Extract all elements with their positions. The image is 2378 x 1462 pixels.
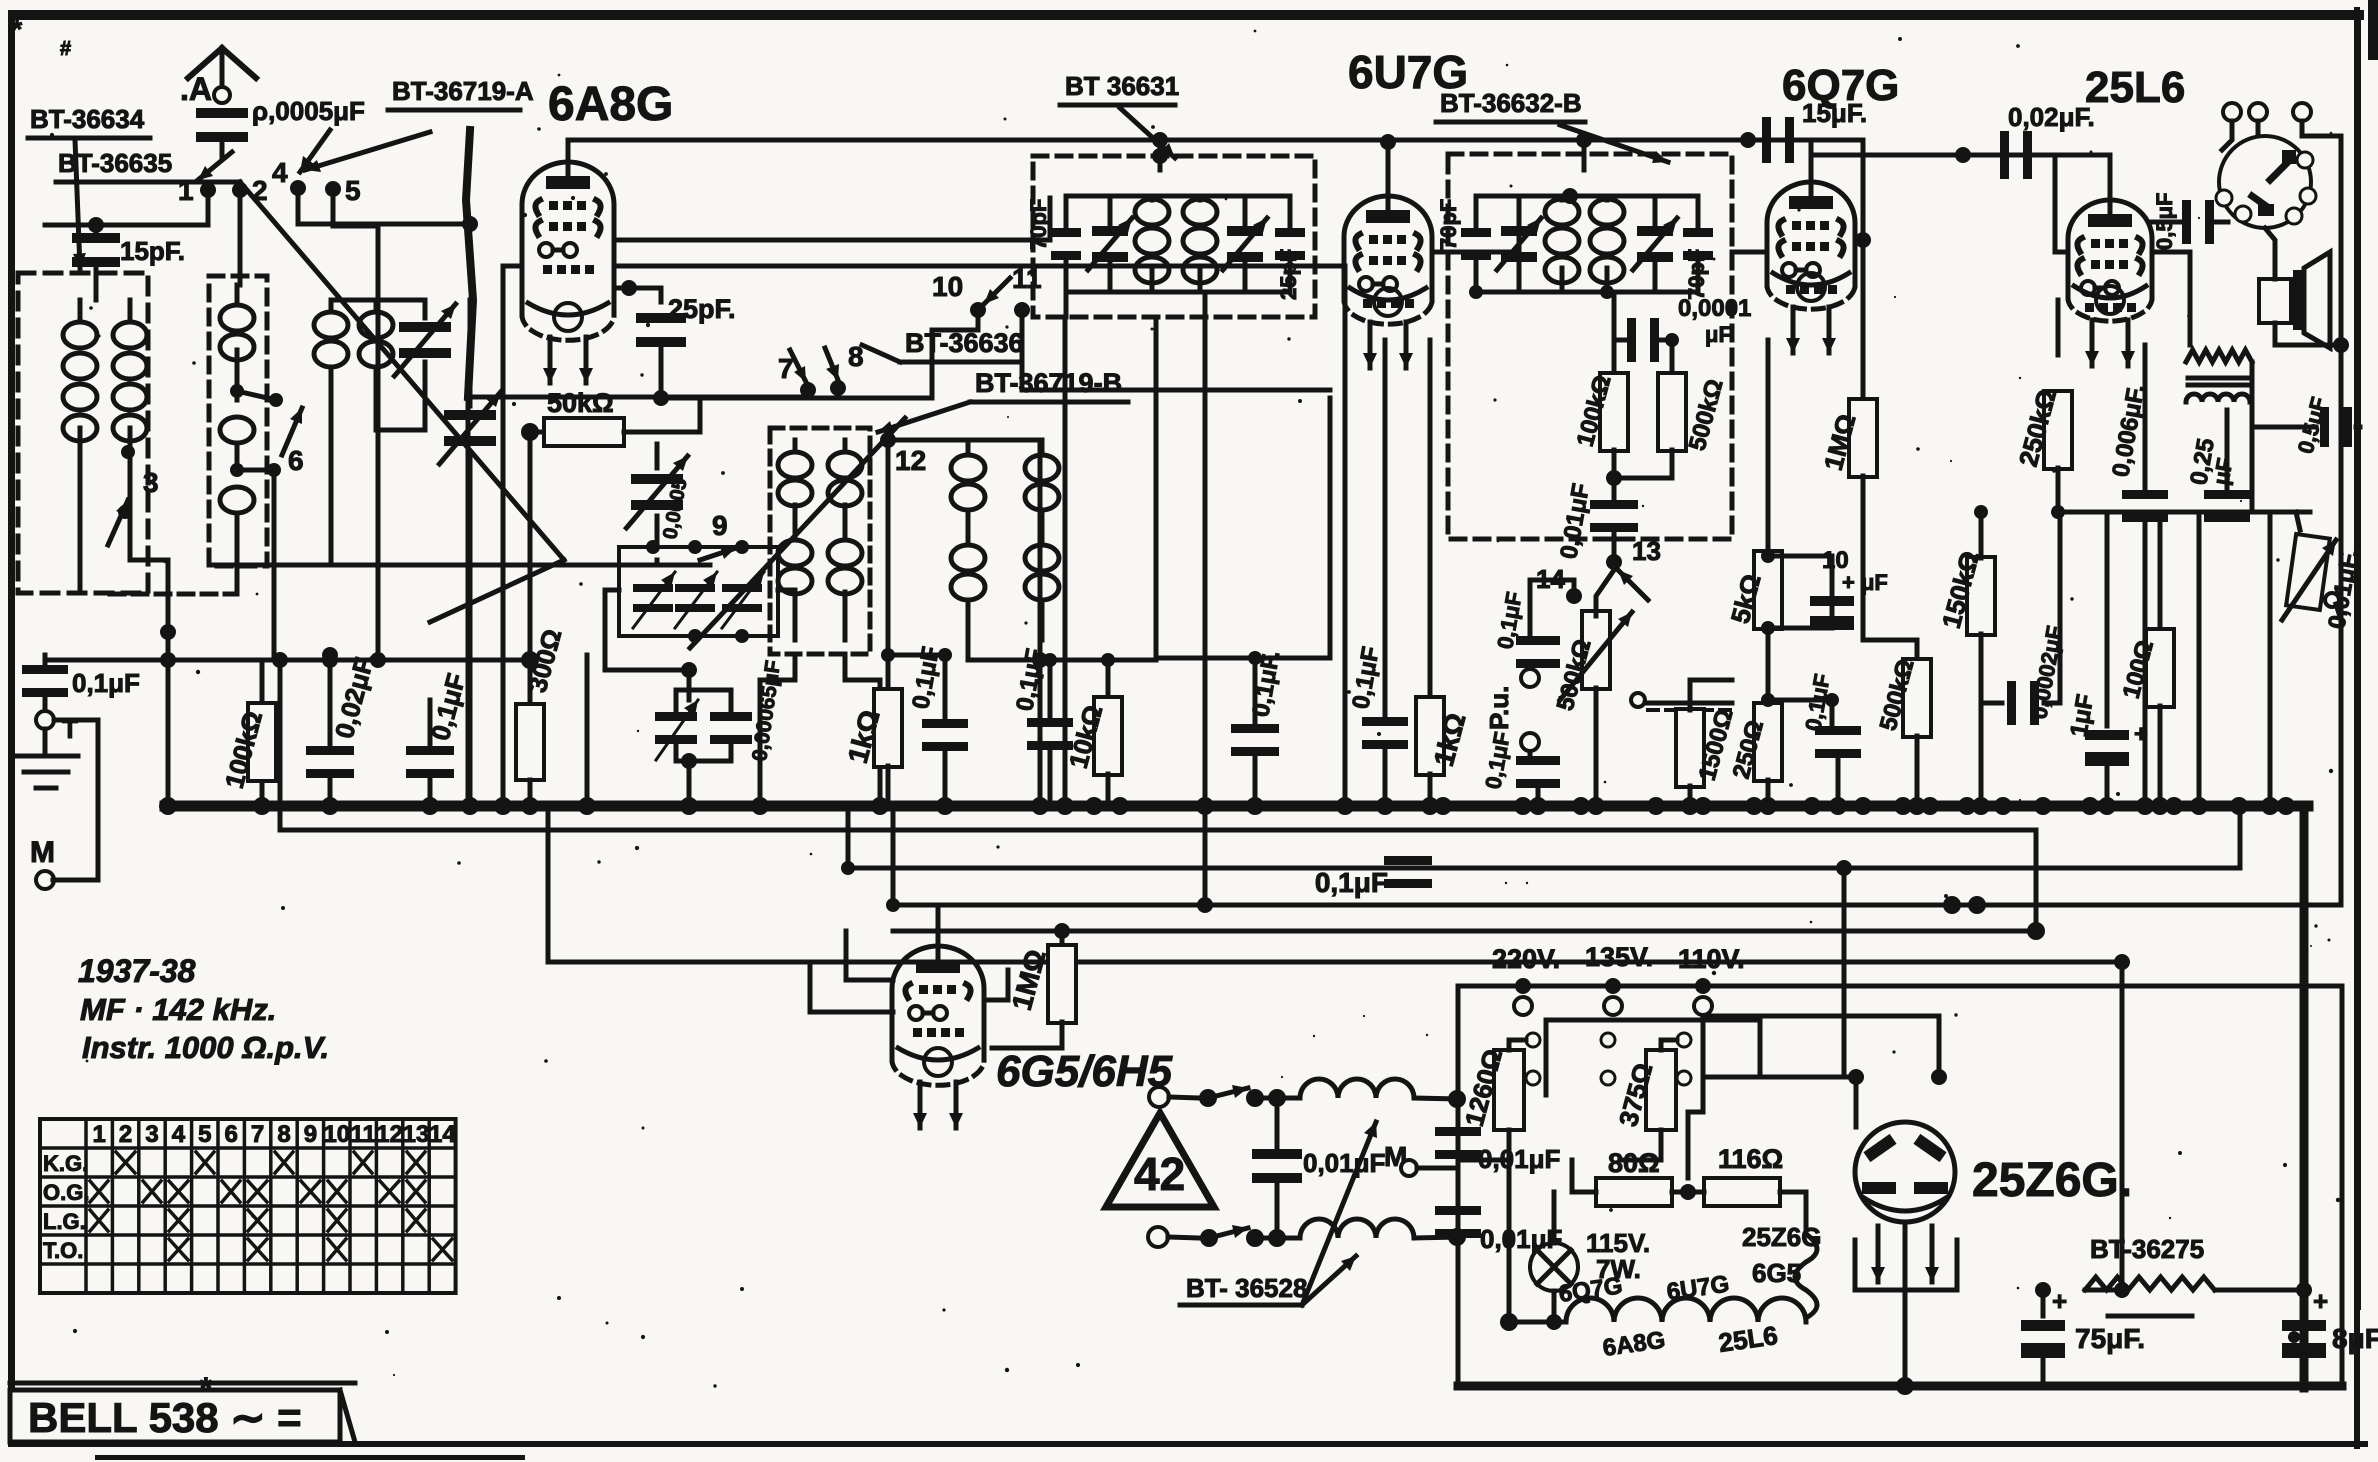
capacitor 0,1uF ground <box>22 665 68 674</box>
resistor 5k <box>1766 340 1771 556</box>
divider circles <box>1526 1033 1540 1047</box>
svg-text:8: 8 <box>277 1121 290 1148</box>
resistor BT-36275 zigzag <box>2085 1277 2215 1290</box>
resistor 500k det <box>1658 373 1686 451</box>
svg-text:BT-36635: BT-36635 <box>58 148 172 178</box>
rail y905 <box>893 140 2341 905</box>
svg-text:0,1μF: 0,1μF <box>1315 867 1388 898</box>
resistor 1M <box>1861 340 1866 400</box>
wire 1M bottom to 500k <box>1863 640 1917 660</box>
svg-text:0,01μF: 0,01μF <box>1480 1224 1562 1254</box>
svg-text:K.G.: K.G. <box>43 1151 88 1176</box>
svg-text:15pF.: 15pF. <box>120 236 185 266</box>
variable capacitor main tuning 1 <box>444 410 496 420</box>
capacitor 0,5uF socket <box>2182 200 2191 244</box>
wire heavy line continue down <box>466 397 471 806</box>
wire 6Q7G grid left <box>1732 250 1767 255</box>
svg-text:11: 11 <box>1012 263 1042 294</box>
capacitor 0,1uF det <box>1048 660 1053 718</box>
capacitor 0,01uF across mains <box>1275 1098 1280 1150</box>
svg-text:BELL 538 ∼ =: BELL 538 ∼ = <box>28 1394 302 1441</box>
wire 25Z6G cathode down <box>1903 1222 1908 1386</box>
contact 14 <box>1566 588 1582 604</box>
svg-text:7: 7 <box>251 1121 264 1148</box>
oscillator dashed box BT-36636 <box>770 428 870 654</box>
speaker <box>2259 279 2291 323</box>
svg-text:220V.: 220V. <box>1492 944 1560 974</box>
wire 888 down <box>886 440 891 655</box>
wire plate y240 <box>614 198 1050 240</box>
arrow to 10 <box>984 278 1010 304</box>
wire transformer wiring <box>2250 362 2255 512</box>
wire left column junction <box>45 658 530 663</box>
wire contact4 down <box>298 188 466 224</box>
padder varcap 2 <box>675 584 715 592</box>
tuning coil 3 <box>329 300 334 312</box>
svg-text:70pF: 70pF <box>1436 199 1461 250</box>
resistor 50k <box>530 430 545 435</box>
wire 0,1uF ground leg <box>43 655 48 668</box>
wire 6U7G plate <box>1432 196 1519 252</box>
dashed AVC line <box>1645 701 1732 706</box>
rail y962 <box>548 806 2122 1290</box>
wire contact1 down <box>96 190 208 225</box>
electrolytic 75uF <box>2041 1290 2046 1316</box>
wire 25L6 topcap riser <box>2108 155 2113 200</box>
antenna coil secondary <box>128 300 133 320</box>
contact 11 <box>1014 302 1030 318</box>
output transformer core <box>2188 376 2250 381</box>
wire 0,006 riser down <box>2143 521 2148 806</box>
wire grid row <box>614 286 629 291</box>
wire y398 right portion <box>800 396 932 401</box>
svg-text:1: 1 <box>93 1121 106 1148</box>
capacitor 0,1uF mid <box>1253 658 1258 722</box>
capacitor 0,1uF PU bottom <box>1528 752 1533 758</box>
coil 2 winding <box>235 285 240 305</box>
wire pot bottom <box>1594 688 1599 806</box>
variable capacitor antenna trim <box>399 322 451 332</box>
wire tap down <box>272 470 277 660</box>
wire 0,25 top <box>2225 410 2230 440</box>
junction dots on bus <box>159 797 177 815</box>
osc tank coil right A <box>966 440 971 452</box>
wire IF1 left col to bus <box>1063 317 1068 806</box>
tube 6A8G arrows <box>548 337 553 383</box>
IF2 wires bottom <box>1476 258 1698 292</box>
wire top-left horizontal <box>45 223 96 228</box>
tube 25Z6G <box>1855 1122 1955 1222</box>
resistor 80ohm <box>1596 1178 1672 1206</box>
wire 6G5 feeds <box>810 962 893 1012</box>
svg-text:1MΩ: 1MΩ <box>1006 946 1052 1013</box>
wire osc box to bus risers <box>760 654 795 806</box>
resistor 250ohm <box>1754 703 1782 781</box>
socket wiring <box>2222 121 2232 150</box>
svg-text:0,0001: 0,0001 <box>1678 295 1751 322</box>
rail y830 <box>280 806 2036 931</box>
svg-text:10: 10 <box>932 271 963 302</box>
tube 6U7G arrows <box>1368 322 1373 368</box>
bumps vertical <box>1795 1198 1817 1318</box>
osc coil left top <box>793 440 798 452</box>
wire line y155 from top cap <box>1811 153 2110 158</box>
svg-text:μF: μF <box>1705 322 1732 347</box>
wire 6A8G left to switch5 wire <box>503 264 522 269</box>
svg-text:5: 5 <box>198 1121 211 1148</box>
heavy bus drop right <box>2300 806 2309 1388</box>
svg-text:L.G.: L.G. <box>43 1209 86 1234</box>
IF1 wires bottom <box>1066 258 1290 292</box>
IF2 coil left <box>1545 199 1579 225</box>
heavy wire BT-36719-A <box>466 130 473 397</box>
terminal T <box>36 711 54 729</box>
heater chain wire <box>1509 1130 1566 1322</box>
volume pot 500k <box>1582 611 1610 689</box>
svg-text:25L6: 25L6 <box>2085 63 2185 112</box>
mains switch top <box>1169 1097 1200 1098</box>
capacitor 0,01uF box edge bottom <box>1435 1206 1481 1215</box>
capacitor 0,5uF top right <box>2320 407 2329 447</box>
svg-text:2: 2 <box>252 175 268 206</box>
wire padder bottom <box>605 590 689 670</box>
wire 1844 drop <box>1842 868 1847 1077</box>
variable capacitor osc tuning <box>631 474 683 484</box>
tube 25Z6G arrows <box>1876 1226 1881 1282</box>
wire screen y266 <box>614 264 1345 269</box>
resistor 375ohm <box>1646 1050 1676 1130</box>
wire IF1 mid col down <box>1154 317 1159 660</box>
capacitor 0,0002uF <box>2007 681 2016 725</box>
wire 6Q7G top cap <box>1809 140 1814 182</box>
capacitor 0,1uF 6A8G cathode <box>943 655 948 718</box>
arrow BT-36632-B <box>1560 125 1668 162</box>
svg-text:BT-36634: BT-36634 <box>30 104 145 134</box>
svg-text:8μF.: 8μF. <box>2332 1323 2378 1354</box>
svg-text:0,01μF: 0,01μF <box>1555 481 1595 561</box>
arrow to contact 4 <box>305 132 430 170</box>
wire 1500 top <box>1690 680 1732 710</box>
resistor 100k <box>260 660 265 700</box>
svg-text:BT-36632-B: BT-36632-B <box>1440 88 1582 118</box>
svg-text:25Z6G.: 25Z6G. <box>1972 1154 2132 1207</box>
contact 12 <box>880 432 896 448</box>
wire tank bottom <box>968 640 1040 660</box>
svg-text:BT 36631: BT 36631 <box>1065 71 1179 101</box>
long gang diagonal <box>240 182 564 560</box>
wire 25Z6G top right <box>1937 1016 1942 1077</box>
capacitor 0,006uF <box>2143 345 2148 490</box>
contact 10 <box>970 302 986 318</box>
switch arm 13-14 <box>1618 570 1648 600</box>
contact 3 <box>121 445 135 459</box>
pilot lamp <box>1530 1243 1578 1291</box>
wire coil top join <box>331 298 425 303</box>
wire 25L6 grid left <box>2055 155 2068 252</box>
wire det resistors join <box>1614 450 1672 502</box>
wire contact2 down <box>238 190 243 285</box>
resistor 500k right <box>1903 659 1931 737</box>
power box outline <box>1458 986 2342 1386</box>
IF1 cap 25pF <box>1275 228 1305 237</box>
IF transformer dashed box BT 36631 <box>1033 156 1315 317</box>
wire grid to 25pF <box>629 288 661 302</box>
IF2 cap 70pF right <box>1683 228 1713 237</box>
osc coil right bottom <box>828 540 862 566</box>
wire y397 long <box>468 395 800 400</box>
svg-text:500kΩ: 500kΩ <box>1684 376 1729 453</box>
svg-text:0,5μF: 0,5μF <box>2152 193 2177 250</box>
phono socket <box>2219 136 2311 228</box>
svg-text:6: 6 <box>225 1121 238 1148</box>
svg-text:80Ω: 80Ω <box>1608 1148 1660 1178</box>
variable capacitor 0,00065uF pair <box>687 670 692 700</box>
svg-text:0,00065μF: 0,00065μF <box>748 659 785 763</box>
wire padder to bus <box>778 588 795 593</box>
wire 280 riser <box>278 655 283 806</box>
wire tank top <box>952 438 1042 443</box>
capacitor 0,02uF <box>2000 131 2009 179</box>
wire osc cap down <box>655 560 660 565</box>
contact 13 <box>1606 554 1622 570</box>
tube 25L6 arrows <box>2090 320 2095 366</box>
padder varcap 1 <box>633 584 673 592</box>
rail y868 <box>848 806 2240 868</box>
wire to coil bottom <box>1255 1236 1298 1241</box>
triangle 42 <box>1106 1113 1214 1207</box>
wire 250k top <box>2056 300 2061 355</box>
tube 6G5 arrows <box>918 1082 923 1128</box>
wire det col down <box>1612 340 1617 374</box>
wire M to T <box>53 720 98 880</box>
tube 6Q7G <box>1767 182 1855 285</box>
switch arm 1 <box>198 152 232 180</box>
svg-text:MF · 142 kHz.: MF · 142 kHz. <box>80 992 276 1027</box>
tube 25L6 <box>2068 200 2152 298</box>
terminals 220 135 110 <box>1515 978 1531 994</box>
svg-text:1: 1 <box>178 175 194 206</box>
IF2 varcap right <box>1637 226 1673 236</box>
svg-text:4: 4 <box>172 1121 186 1148</box>
wire 150k top <box>1979 512 1984 558</box>
mains choke bottom <box>1300 1219 1414 1238</box>
contact 8 <box>830 380 846 396</box>
wire antenna to switch <box>220 140 225 158</box>
output transformer secondary <box>2186 394 2250 402</box>
wire 6Q7G plate right <box>1855 238 1863 243</box>
capacitor 0,0001uF <box>1627 318 1636 362</box>
wire choke top right <box>1414 1098 1457 1099</box>
resistor 1k 6A8G cathode <box>886 655 891 690</box>
wire y512 <box>2058 510 2310 515</box>
switch table <box>40 1119 456 1293</box>
arrows BT-36528 <box>1302 1122 1376 1305</box>
svg-text:25Z6G: 25Z6G <box>1742 1222 1822 1252</box>
wire speaker connections <box>2265 228 2275 279</box>
wire plate feed drop <box>1861 140 1866 340</box>
wire 14 left <box>1530 580 1574 640</box>
main ground bus <box>165 801 2308 812</box>
wire coil to bus-left <box>130 560 168 806</box>
IF1 varcap left <box>1092 226 1128 236</box>
svg-text:25pF.: 25pF. <box>668 294 736 324</box>
rail y931 <box>893 929 2036 934</box>
svg-text:14: 14 <box>429 1121 456 1148</box>
svg-text:15μF.: 15μF. <box>1802 98 1867 128</box>
capacitor 0,1uF 6U7G cathode <box>1383 340 1388 715</box>
wire tank riser to bus <box>1038 440 1043 806</box>
svg-text:.A: .A <box>180 71 212 107</box>
electrolytic 1uF <box>2105 512 2110 726</box>
wire 1260 wiring <box>1458 1040 1526 1160</box>
resistor 100ohm <box>2158 522 2163 630</box>
IF1 coil right <box>1183 199 1217 225</box>
svg-text:6G5: 6G5 <box>1752 1258 1801 1288</box>
wire 6U7G top cap <box>1386 142 1391 196</box>
divider wiring rect <box>1546 1020 1760 1095</box>
dashed box coil 2 <box>209 276 267 566</box>
volume pot 0,01uF <box>2286 534 2330 610</box>
wire box top inner <box>1703 1014 1939 1019</box>
svg-text:ρ,0005μF: ρ,0005μF <box>252 96 365 126</box>
ground symbol <box>43 729 48 756</box>
switch arms 7 8 <box>790 350 806 382</box>
svg-text:BT- 36528: BT- 36528 <box>1186 1273 1307 1303</box>
gang diagonal tail <box>430 560 564 622</box>
svg-text:25L6: 25L6 <box>1717 1320 1780 1358</box>
svg-text:4: 4 <box>272 157 288 188</box>
wire right column risers <box>2197 512 2202 806</box>
wire label to arms <box>862 345 900 362</box>
wire contact12 right <box>888 438 952 443</box>
IF2 coil right <box>1590 199 1624 225</box>
svg-text:0,1μF: 0,1μF <box>1347 645 1384 711</box>
svg-text:5: 5 <box>345 175 361 206</box>
tube 6Q7G arrows <box>1791 307 1796 353</box>
wire lamp <box>1552 1192 1557 1322</box>
padder box <box>619 547 778 636</box>
IF1 wires top <box>1066 196 1290 230</box>
electrolytic 10uF <box>1830 570 1835 628</box>
table X marks <box>90 1152 452 1260</box>
svg-text:75μF.: 75μF. <box>2075 1323 2145 1354</box>
heater chain coils <box>1566 1298 1806 1322</box>
svg-text:T.O.: T.O. <box>43 1238 83 1263</box>
wire 10uF join <box>1768 556 1832 628</box>
resistor 116ohm <box>1704 1178 1780 1206</box>
svg-text:0,1μF: 0,1μF <box>425 670 472 743</box>
svg-text:3: 3 <box>143 467 159 498</box>
IF2 varcap left <box>1501 226 1537 236</box>
svg-text:9: 9 <box>712 510 728 541</box>
wire choke bottom right <box>1414 1237 1457 1238</box>
capacitor 0,25uF <box>2225 440 2230 490</box>
socket pins <box>2297 152 2313 168</box>
resistor 1500ohm <box>1688 710 1693 716</box>
wire cathode horizontal <box>888 653 945 658</box>
IF2 cap 70pF left <box>1461 228 1491 237</box>
wire top cap to line A <box>566 140 571 162</box>
mains terminal top <box>1149 1087 1169 1107</box>
junction dots on rails <box>1943 896 1961 914</box>
svg-text:10: 10 <box>323 1121 350 1148</box>
contact 7 <box>800 382 816 398</box>
switch arm 4 <box>300 130 330 172</box>
capacitor 15pF line <box>1762 117 1771 163</box>
terminal PU 1 <box>1521 669 1539 687</box>
svg-text:BT-36719-B.: BT-36719-B. <box>975 368 1130 398</box>
wire det col <box>1612 292 1617 340</box>
capacitor 0,1uF on rail <box>1384 856 1432 865</box>
wire pot wiring <box>2296 512 2300 530</box>
capacitor 0,1uF 6Q7G <box>1830 700 1835 726</box>
arrow BT 36631 <box>1120 108 1175 158</box>
svg-text:13: 13 <box>403 1121 430 1148</box>
svg-text:70pF: 70pF <box>1026 199 1051 250</box>
resistor 250k <box>2056 300 2061 355</box>
capacitor 0,1uF PU top <box>1516 636 1560 645</box>
IF transformer detector dashed box BT-36632-B <box>1448 154 1732 539</box>
capacitor 15pF <box>94 225 99 235</box>
wire 0,0002 wiring <box>1981 701 2002 706</box>
resistor 150k <box>1967 557 1995 635</box>
svg-text:2: 2 <box>119 1121 132 1148</box>
switch contacts 1 2 4 5 <box>200 182 216 198</box>
resistor 10k <box>1106 660 1111 700</box>
capacitor 25pF <box>636 313 686 323</box>
wire zigzag right <box>2215 1288 2304 1293</box>
mains switch bottom <box>1168 1237 1200 1238</box>
svg-text:50kΩ: 50kΩ <box>547 388 614 418</box>
svg-text:0,1μF: 0,1μF <box>72 668 140 698</box>
IF1 coil left <box>1135 199 1169 225</box>
mains choke top <box>1300 1079 1414 1098</box>
wire HT right <box>2085 1288 2122 1293</box>
wire 6U7G screen riser <box>1343 268 1348 806</box>
svg-text:12: 12 <box>376 1121 403 1148</box>
svg-text:0,1μF: 0,1μF <box>1011 647 1048 713</box>
tube 6A8G <box>522 162 614 315</box>
wire 470 riser <box>468 560 473 806</box>
mains terminal bottom <box>1148 1227 1168 1247</box>
capacitor 0,0005uF antenna <box>196 108 248 118</box>
resistor 1260ohm <box>1494 1050 1524 1130</box>
wire y660 segment <box>1040 658 1156 663</box>
capacitor 0,1uF column <box>428 700 433 745</box>
svg-text:6: 6 <box>288 445 304 476</box>
diagonal gang line osc <box>690 418 905 648</box>
svg-text:6G5/6H5: 6G5/6H5 <box>996 1047 1173 1096</box>
wire IF1 center to line A <box>1158 140 1163 170</box>
wire IF2 center riser <box>1582 140 1587 170</box>
svg-text:M: M <box>30 836 55 869</box>
svg-text:0,1μF: 0,1μF <box>1480 730 1515 791</box>
svg-text:135V.: 135V. <box>1585 942 1653 972</box>
tuning coil 4 <box>374 300 379 312</box>
padder varcap 3 <box>722 584 762 592</box>
svg-text:9: 9 <box>304 1121 317 1148</box>
tube 6U7G <box>1344 196 1432 300</box>
contact 6 taps <box>230 384 244 398</box>
osc coil right top <box>843 440 848 452</box>
svg-text:13: 13 <box>1632 536 1661 566</box>
wire cap top right <box>2252 425 2360 430</box>
svg-text:11: 11 <box>351 1121 376 1148</box>
IF1 riser left down <box>1064 292 1069 317</box>
tube 6G5/6H5 <box>892 946 984 1060</box>
terminal PU 2 <box>1521 733 1539 751</box>
wire grid riser left <box>501 266 506 806</box>
